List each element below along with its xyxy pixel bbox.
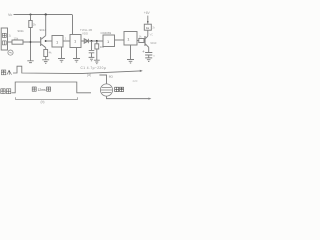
- label R1 value: [33, 23, 37, 27]
- text 9014: [40, 28, 47, 32]
- label U2: [74, 38, 77, 43]
- svg-text:VDD: VDD: [82, 32, 88, 36]
- text 9011: [18, 29, 25, 33]
- label 1M: [100, 45, 105, 49]
- wire speaker bottom: [107, 96, 149, 98]
- gate U1: [52, 36, 63, 48]
- resistor R2: [12, 40, 23, 44]
- junction node C: [45, 40, 47, 42]
- wire rail drop to U2: [72, 15, 74, 35]
- label U3: [107, 39, 110, 44]
- label R5 value: [146, 26, 150, 30]
- ground G7: [145, 58, 152, 62]
- svg-text:9011: 9011: [18, 29, 25, 33]
- label input CJK: [1, 70, 11, 75]
- wire collector up: [45, 15, 47, 36]
- transistor VT: [144, 36, 146, 46]
- label speaker CJK: [115, 87, 124, 91]
- waveform input: [13, 66, 140, 73]
- wire U2 out: [81, 40, 103, 42]
- label Vcc: [8, 13, 12, 17]
- svg-text:8Ω: 8Ω: [109, 75, 114, 79]
- resistor R3: [44, 50, 48, 57]
- AC source microphone: [8, 50, 13, 55]
- svg-text:C1 4.7µ~220µ: C1 4.7µ~220µ: [81, 66, 107, 70]
- text (b): [41, 100, 45, 104]
- wire U4 out: [137, 40, 139, 42]
- svg-text:2k: 2k: [33, 23, 37, 27]
- resistor R5: [144, 24, 151, 30]
- wire to U1: [46, 40, 52, 42]
- svg-text:15k: 15k: [14, 37, 19, 41]
- wire emitter down: [45, 48, 47, 50]
- label R3 value: [49, 51, 53, 55]
- ground drop G2: [61, 47, 63, 59]
- plus mark: [142, 50, 144, 52]
- svg-text:VD: VD: [8, 13, 12, 17]
- ground drop G6: [130, 45, 132, 60]
- text CD4069: [101, 31, 112, 35]
- wire U3 out: [115, 39, 125, 41]
- ground G4: [89, 57, 95, 60]
- text 220 ohm faint: [133, 79, 138, 83]
- wire U1 to U2: [63, 40, 70, 42]
- wire +V: [147, 16, 149, 25]
- junction node D: [91, 40, 93, 42]
- text VT 9013: [150, 41, 156, 45]
- resistor R4: [139, 39, 144, 43]
- transistor V1: [40, 37, 42, 46]
- label R4: [139, 34, 143, 38]
- wire base left: [8, 41, 13, 43]
- gate U3: [103, 35, 115, 47]
- text 8 ohm: [109, 75, 114, 79]
- wire collector to R5: [147, 30, 149, 36]
- svg-text:1k: 1k: [146, 26, 150, 30]
- ground G1: [42, 60, 49, 64]
- dimension line pulse width: [16, 97, 78, 99]
- label node 2: [65, 36, 67, 40]
- label U1: [56, 39, 59, 44]
- arrowhead: [148, 98, 151, 100]
- text +6V: [144, 11, 151, 15]
- text (a): [87, 73, 91, 77]
- waveform output: [12, 82, 92, 93]
- label U4: [127, 37, 130, 42]
- label R5 right: [152, 26, 155, 30]
- junction on base wire: [30, 41, 32, 43]
- wire speaker top: [99, 75, 106, 84]
- svg-text:+6V: +6V: [144, 11, 151, 15]
- junction +V: [147, 21, 149, 23]
- junction node E: [96, 40, 98, 42]
- svg-text:VC: VC: [150, 34, 154, 37]
- text TWH-48: [80, 28, 92, 32]
- text Vcc: [150, 34, 154, 37]
- arrowhead input: [140, 70, 143, 72]
- svg-text:2j: 2j: [9, 34, 12, 38]
- svg-text:12ms: 12ms: [38, 88, 46, 92]
- text VDD: [82, 32, 88, 36]
- label inside B1: [3, 33, 7, 45]
- junction node A: [29, 13, 31, 15]
- diode VD: [84, 39, 88, 43]
- capacitor C1: [91, 41, 93, 50]
- svg-text:220: 220: [133, 79, 138, 83]
- junction node B: [45, 13, 47, 15]
- text C1 value: [81, 66, 107, 70]
- resistor R 1M: [96, 41, 98, 44]
- text pulse width: [32, 87, 50, 92]
- label beside B1: [9, 34, 12, 38]
- sensor box B1: [1, 28, 7, 50]
- wire R4 to base: [143, 40, 146, 42]
- ground drop G3: [76, 48, 78, 59]
- wire base right: [23, 41, 41, 43]
- capacitor C2: [145, 53, 152, 56]
- gate U2: [70, 35, 81, 48]
- svg-text:(b): (b): [41, 100, 45, 104]
- gate U4: [124, 32, 137, 46]
- wire emitter down: [148, 47, 150, 52]
- label R2 value: [14, 37, 19, 41]
- label output CJK: [1, 89, 11, 94]
- resistor R1: [30, 15, 32, 21]
- ground G5: [94, 60, 100, 63]
- speaker BL: [100, 84, 112, 96]
- text uF: [153, 54, 155, 58]
- ground G0: [27, 61, 33, 63]
- svg-text:9013: 9013: [150, 41, 156, 45]
- wire top rail: [14, 14, 73, 16]
